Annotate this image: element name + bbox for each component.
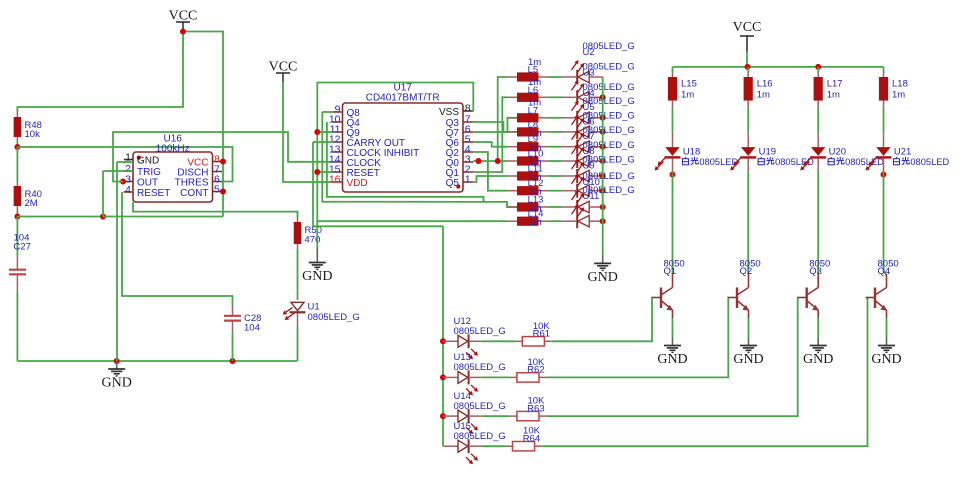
LED U13 0805LED_G (443, 376, 458, 378)
U16 pin 5 stub (CONT) (213, 191, 223, 193)
wire C27 to ground rail (16, 292, 18, 361)
LED U8 lead to bus (589, 175, 603, 177)
wire VSS over-the-top to GND (317, 83, 473, 248)
wire U15 to R64 (482, 445, 505, 447)
inductor L5 1m (507, 76, 517, 78)
wire U17 Q3 to row 4 (473, 122, 517, 132)
LED U9 lead to bus (589, 190, 603, 192)
wire U17 pin11 link (317, 131, 332, 133)
svg-text:100kHz: 100kHz (156, 144, 190, 155)
svg-text:Q4: Q4 (878, 266, 891, 277)
IC U16 555 timer 100kHz body (133, 152, 213, 202)
svg-text:U2: U2 (583, 47, 595, 58)
wire RESET to C28 (122, 192, 233, 306)
resistor R40 2M (16, 181, 18, 186)
U17 pin 5 stub (463, 141, 473, 143)
svg-text:L8: L8 (528, 119, 539, 130)
junction LED bus row 6 (600, 158, 606, 164)
svg-text:R62: R62 (527, 365, 544, 376)
U16 pin 3 stub (OUT) (124, 181, 134, 183)
wire R64 to Q4 base (542, 298, 867, 447)
svg-text:5: 5 (214, 184, 220, 196)
LED U1 0805LED_G (291, 302, 304, 310)
U17 pin 6 stub (463, 131, 473, 133)
svg-text:VCC: VCC (269, 60, 298, 75)
U17 pin 4 stub (463, 151, 473, 153)
U16 pin 7 stub (DISCH) (213, 171, 223, 173)
svg-text:U21: U21 (894, 146, 911, 157)
wire node B down to C27 (16, 217, 18, 256)
LED U6 lead to bus (589, 146, 603, 148)
svg-text:GND: GND (871, 352, 901, 367)
resistor R62 10K (509, 376, 517, 378)
resistor R63 10K (509, 415, 517, 417)
junction LED bus row 3 (600, 115, 606, 121)
wire U17 pin12 CARRY OUT to LED bus (313, 142, 443, 226)
IC U17 CD4017BMT/TR body (343, 103, 464, 192)
LED U10 lead to bus (589, 206, 603, 208)
wire VCC to U16 pin8 and CONT column (183, 31, 223, 217)
LED U20 white 0805LED (817, 133, 819, 147)
inductor L16 1m (747, 73, 749, 78)
U17 pin 16 stub (333, 181, 343, 183)
LED U18 white 0805LED (672, 133, 674, 147)
inductor L18 lower lead (883, 101, 885, 107)
LED U10 0805LED_G (562, 206, 576, 208)
svg-text:C27: C27 (14, 242, 31, 253)
svg-text:U11: U11 (583, 191, 600, 202)
U16 pin 8 stub (VCC) (213, 161, 223, 163)
wire TRIG down to node B (102, 171, 104, 217)
svg-text:10k: 10k (25, 129, 41, 140)
wire U18 to Q1 collector (672, 171, 674, 274)
inductor L6 1m (507, 96, 517, 98)
wire U13 to R62 (482, 376, 510, 378)
svg-text:16: 16 (329, 174, 341, 186)
wire R61 to Q1 base (552, 298, 652, 342)
inductor L16 lower lead (747, 101, 749, 107)
junction LED bus row 8 (600, 188, 606, 194)
inductor L15 lower lead (672, 101, 674, 107)
transistor Q1 8050 (NPN) (652, 274, 673, 318)
wire R63 to Q3 base (547, 298, 798, 417)
svg-text:0805LED_G: 0805LED_G (454, 401, 506, 412)
svg-text:VCC: VCC (733, 20, 762, 35)
wire U19 to Q2 collector (jog) (747, 171, 749, 275)
wire U17 pin10 under box (327, 122, 484, 202)
power flag VCC net V1 (169, 9, 198, 32)
wire rail to L18 (883, 67, 885, 73)
ground GND (Q2) (733, 338, 763, 368)
inductor L11 1m (507, 175, 517, 177)
wire VCC rail (673, 66, 884, 68)
svg-text:GND: GND (137, 156, 159, 167)
svg-text:VDD: VDD (347, 178, 368, 189)
wire OUT to U17 CLOCK pin14 (113, 132, 333, 182)
svg-text:L6: L6 (528, 85, 539, 96)
svg-text:U18: U18 (683, 146, 700, 157)
wire U16 GND pin horizontal (117, 161, 133, 163)
wire U17 Q5 to row 7 (473, 176, 507, 182)
svg-text:2M: 2M (25, 198, 38, 209)
junction LED bus row 2 (600, 94, 606, 100)
wire R48 to node A (16, 142, 18, 147)
wire R62 to Q2 base (547, 298, 729, 378)
svg-text:R61: R61 (533, 329, 550, 340)
svg-text:VSS: VSS (439, 107, 459, 118)
junction VCC rail col2 (745, 64, 751, 70)
LED U2 lead to bus (589, 76, 603, 78)
wire U17 Q7 to row 3 (473, 118, 517, 132)
svg-text:L5: L5 (528, 65, 539, 76)
power flag VCC net V2 (269, 60, 298, 83)
junction LED bus row 10 (600, 218, 606, 224)
svg-text:1m: 1m (892, 89, 905, 100)
junction node A (R48/R40) (14, 144, 20, 150)
transistor Q3 8050 (NPN) (797, 274, 818, 318)
wire Q0 branch to row 1 (498, 77, 507, 161)
junction ground rail at C28 (230, 358, 236, 364)
junction carry bus U14 (440, 413, 446, 419)
wire U17 pin15 link (317, 171, 332, 173)
resistor R50 body (294, 222, 302, 244)
wire U14 to R63 (482, 415, 510, 417)
svg-text:GND: GND (588, 270, 618, 285)
LED U5 lead to bus (589, 131, 603, 133)
wire node B to TRIG branch (17, 216, 103, 218)
wire U17 Q1 to row 2 (473, 97, 507, 172)
junction U17 pin11/Q9 (314, 129, 320, 135)
LED U12 0805LED_G (443, 340, 458, 342)
svg-text:L10: L10 (528, 149, 544, 160)
wire L11 to LED U8 (547, 175, 562, 177)
label 白光0805LED (U20) (828, 157, 844, 165)
inductor L8 1m (507, 131, 517, 133)
wire U17 pin12 link (313, 141, 333, 143)
svg-text:L11: L11 (528, 164, 543, 175)
wire L16 to U19 (747, 107, 749, 133)
svg-text:1m: 1m (757, 89, 770, 100)
junction Q0 net a (476, 158, 482, 164)
inductor L18 1m (883, 73, 885, 78)
U16 pin 1 stub (GND) (124, 159, 133, 161)
junction ground rail at GND (114, 358, 120, 364)
U17 pin 8 stub (463, 110, 473, 112)
wire L5 to LED U2 (547, 76, 562, 78)
U17 pin 9 stub (333, 111, 343, 113)
inductor L12 1m (507, 190, 517, 192)
capacitor C27 plate 1 (9, 269, 26, 271)
wire VCC to R48 (17, 32, 183, 113)
junction LED bus row 4 (600, 129, 606, 135)
resistor R61 10K (515, 340, 523, 342)
capacitor C28 lead (232, 321, 234, 332)
svg-text:L18: L18 (892, 79, 908, 90)
wire Q4 emitter to ground (886, 318, 888, 338)
wire Q1 emitter to ground (672, 318, 674, 338)
U17 pin 7 stub (463, 121, 473, 123)
svg-text:L15: L15 (681, 79, 697, 90)
wire VCC to U17 VDD pin16 (283, 82, 333, 183)
wire L18 to U21 (883, 107, 885, 133)
wire U16 to R50 (133, 202, 298, 217)
wire ground rail bottom-left (17, 360, 297, 362)
LED U6 0805LED_G (562, 146, 576, 148)
wire U17 Q6 to row 5 (473, 142, 507, 147)
wire R50 to U1 LED (297, 249, 299, 300)
svg-text:L13: L13 (528, 195, 544, 206)
LED U11 lead to bus (589, 220, 603, 222)
capacitor C28 104 (232, 306, 234, 315)
svg-text:GND: GND (733, 352, 763, 367)
U17 pin 14 stub (333, 161, 343, 163)
LED U15 0805LED_G (443, 445, 458, 447)
wire U16 GND pin down to rail (116, 162, 118, 361)
ground GND (Q4) (871, 338, 901, 368)
svg-text:L9: L9 (528, 134, 539, 145)
wire rail to L16 (747, 67, 749, 73)
ground GND (Q1) (657, 338, 687, 368)
junction U17 pin15/RESET (314, 169, 320, 175)
LED U7 lead to bus (589, 160, 603, 162)
wire L14 to LED U11 (547, 220, 562, 222)
wire U17 GND gray stub (316, 247, 318, 255)
LED U5 0805LED_G (562, 131, 576, 133)
capacitor C27 lead (16, 275, 18, 292)
wire L13 to LED U10 (547, 206, 562, 208)
svg-text:1m: 1m (681, 89, 694, 100)
svg-text:1: 1 (465, 174, 471, 186)
junction LED bus row 5 (600, 144, 606, 150)
capacitor C27 plate 2 (9, 273, 26, 275)
svg-text:GND: GND (803, 352, 833, 367)
junction below U18 (670, 172, 676, 178)
svg-text:R63: R63 (527, 403, 544, 414)
svg-text:TRIG: TRIG (137, 167, 161, 178)
inductor L14 1m (507, 220, 517, 222)
junction U16 pin5/CONT (220, 189, 226, 195)
svg-text:U3: U3 (583, 67, 595, 78)
wire U17 pin9 to row 9 (322, 112, 517, 207)
resistor R50 470 (297, 217, 299, 222)
U17 pin 10 stub (333, 121, 343, 123)
LED U7 0805LED_G (562, 160, 576, 162)
LED U19 white 0805LED (747, 133, 749, 147)
U16 pin 2 stub (TRIG) (124, 170, 134, 172)
junction LED bus row 7 (600, 173, 606, 179)
wire TRIG horizontal (103, 170, 133, 172)
svg-text:GND: GND (102, 376, 132, 391)
wire node A to U16 THRES pin6 (17, 147, 232, 182)
wire U17 Q0 to row 6 (473, 160, 507, 162)
junction LED bus row 9 (600, 204, 606, 210)
wire Q3 emitter to ground (817, 318, 819, 338)
svg-text:GND: GND (657, 352, 687, 367)
label 白光0805LED (U18) (682, 157, 698, 165)
U17 pin 15 stub (333, 171, 343, 173)
ground GND (LED array) (588, 255, 618, 285)
wire C28 to ground rail (232, 332, 234, 361)
junction Q0 net b (495, 158, 501, 164)
svg-text:0805LED_G: 0805LED_G (454, 431, 506, 442)
svg-text:0805LED_G: 0805LED_G (308, 312, 360, 323)
wire U17 pin9 link (322, 111, 332, 113)
wire L7 to LED U4 (547, 117, 562, 119)
wire VCC to rail (746, 52, 748, 67)
wire L12 to LED U9 (547, 190, 562, 192)
inductor L9 1m (507, 146, 517, 148)
LED U21 white 0805LED (883, 133, 885, 147)
ground GND (U17) (302, 255, 332, 285)
wire U20 to Q3 collector (817, 171, 819, 274)
svg-text:0805LED: 0805LED (699, 157, 738, 167)
svg-text:0805LED: 0805LED (910, 157, 949, 167)
svg-text:VCC: VCC (169, 9, 198, 24)
wire carry bus down (442, 226, 444, 446)
wire L9 to LED U6 (547, 146, 562, 148)
ground GND (left section) (102, 361, 132, 391)
inductor L13 1m (507, 206, 517, 208)
resistor R48 body (14, 117, 22, 137)
wire U12 to R61 (482, 340, 515, 342)
transistor Q2 8050 (NPN) (728, 274, 749, 318)
svg-text:104: 104 (244, 323, 260, 334)
U16 pin 6 stub (THRES) (213, 181, 223, 183)
inductor L17 1m (817, 73, 819, 78)
svg-text:4: 4 (125, 184, 131, 196)
LED U11 0805LED_G (562, 220, 576, 222)
U17 pin 3 stub (463, 161, 473, 163)
wire node B to U16 CONT pin5 (103, 216, 223, 218)
U17 pin 11 stub (333, 131, 343, 133)
capacitor C28 plate 2 (224, 320, 241, 322)
resistor R40 body (14, 186, 22, 206)
svg-text:L14: L14 (528, 209, 544, 220)
svg-text:CONT: CONT (180, 188, 208, 199)
junction U16 pin3 OUT (120, 179, 126, 185)
wire VSS net to row 10 (317, 220, 507, 222)
junction VCC node (180, 29, 186, 35)
junction node B (R40/C27) (14, 214, 20, 220)
junction below U21 (881, 172, 887, 178)
svg-text:Q5: Q5 (446, 178, 460, 189)
inductor L17 lower lead (817, 101, 819, 107)
svg-text:R64: R64 (523, 434, 540, 445)
resistor R64 10K (505, 445, 513, 447)
svg-text:L16: L16 (757, 79, 773, 90)
svg-text:Q3: Q3 (809, 266, 822, 277)
U17 pin 13 stub (333, 151, 343, 153)
capacitor C28 plate 1 (224, 315, 241, 317)
U17 pin 12 stub (333, 141, 343, 143)
LED U3 0805LED_G (562, 96, 576, 98)
svg-text:OUT: OUT (137, 178, 158, 189)
wire U17 Q2 to row 8 (473, 152, 507, 191)
svg-text:Q1: Q1 (664, 266, 677, 277)
wire LED bus to ground (602, 77, 604, 255)
label 白光0805LED (U21) (893, 157, 909, 165)
LED U1 lead (297, 313, 299, 326)
svg-text:1m: 1m (827, 89, 840, 100)
transistor Q4 8050 (NPN) (866, 274, 887, 318)
svg-text:U1: U1 (308, 302, 320, 313)
svg-text:CD4017BMT/TR: CD4017BMT/TR (366, 93, 440, 104)
LED U9 0805LED_G (562, 190, 576, 192)
junction VCC rail col3 (815, 64, 821, 70)
U17 pin 1 stub (463, 181, 473, 183)
U17 pin 2 stub (463, 171, 473, 173)
wire R40 to node B (16, 211, 18, 217)
LED U4 lead to bus (589, 117, 603, 119)
svg-text:L17: L17 (827, 79, 843, 90)
wire node A to R40 (16, 147, 18, 181)
LED U4 0805LED_G (562, 117, 576, 119)
svg-text:L7: L7 (528, 105, 539, 116)
wire L10 to LED U7 (547, 160, 562, 162)
svg-text:RESET: RESET (137, 188, 170, 199)
svg-text:U20: U20 (829, 146, 846, 157)
LED U3 lead to bus (589, 96, 603, 98)
LED U1 cathode bar (290, 311, 306, 313)
wire L17 to U20 (817, 107, 819, 133)
junction TRIG branch (100, 214, 106, 220)
junction U16 pin8/VCC (220, 159, 226, 165)
svg-text:0805LED_G: 0805LED_G (454, 362, 506, 373)
wire L8 to LED U5 (547, 131, 562, 133)
power flag VCC net V3 (733, 20, 762, 52)
svg-text:L12: L12 (528, 178, 544, 189)
label 白光0805LED (U19) (758, 157, 774, 165)
inductor L10 1m (507, 160, 517, 162)
junction carry bus U13 (440, 374, 446, 380)
svg-text:U19: U19 (759, 146, 776, 157)
wire U1 to ground rail (297, 326, 299, 361)
resistor R48 10k (16, 112, 18, 117)
LED U14 0805LED_G (443, 415, 458, 417)
inductor L7 1m (507, 117, 517, 119)
junction carry bus U12 (440, 338, 446, 344)
wire rail to L15 (672, 67, 674, 73)
wire rail to L17 (817, 67, 819, 73)
svg-text:Q2: Q2 (740, 266, 753, 277)
U16 pin 4 stub (RESET) (124, 191, 134, 193)
inductor L15 1m (672, 73, 674, 78)
svg-text:0805LED_G: 0805LED_G (454, 326, 506, 337)
wire L15 to U18 (672, 107, 674, 133)
LED U2 0805LED_G (562, 76, 576, 78)
ground GND (Q3) (803, 338, 833, 368)
wire L6 to LED U3 (547, 96, 562, 98)
wire U21 to Q4 collector (jog) (884, 171, 887, 275)
LED U8 0805LED_G (562, 175, 576, 177)
wire Q2 emitter to ground (748, 318, 750, 338)
svg-text:GND: GND (302, 269, 332, 284)
